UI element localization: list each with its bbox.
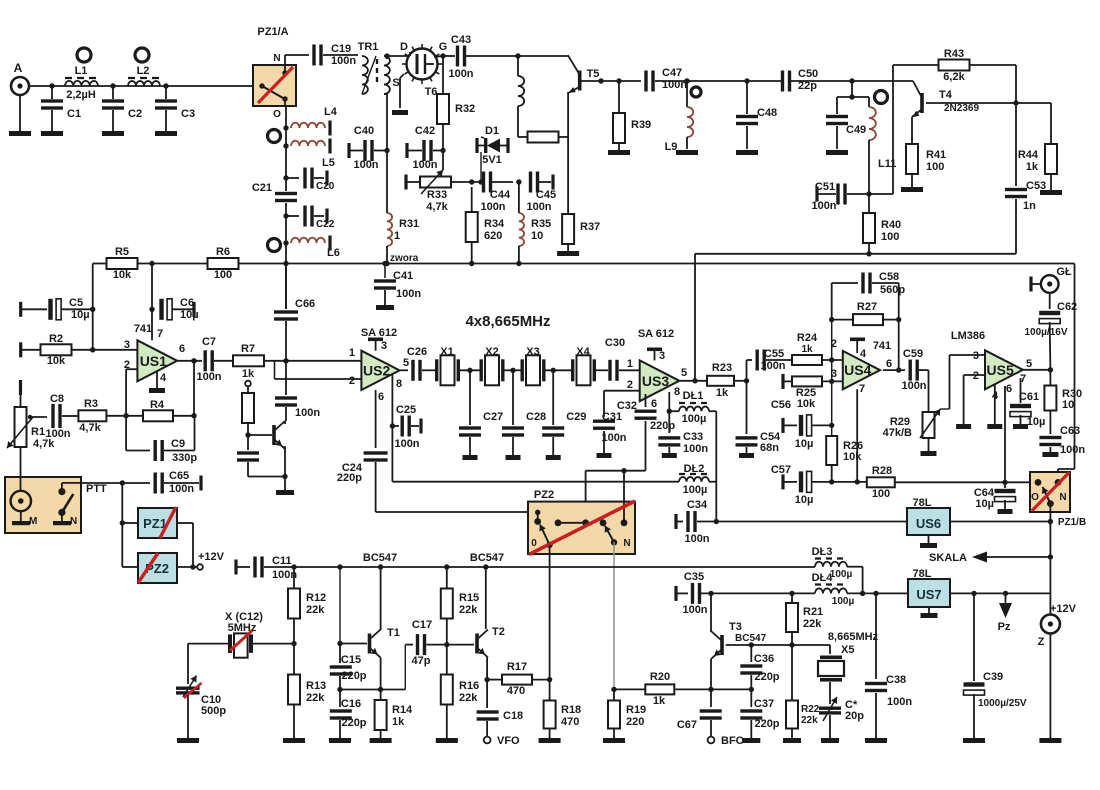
wire <box>125 369 127 416</box>
relay coil PZ1 <box>138 508 177 538</box>
wire <box>165 110 167 131</box>
svg-text:C7: C7 <box>202 336 216 348</box>
svg-text:100n: 100n <box>353 159 378 171</box>
antenna connector A <box>11 77 29 95</box>
wire <box>619 369 640 371</box>
svg-text:100n: 100n <box>412 159 437 171</box>
wire <box>380 690 382 702</box>
wire <box>339 690 341 708</box>
wire antenna line <box>29 85 253 87</box>
svg-text:3: 3 <box>659 350 665 362</box>
svg-text:R4: R4 <box>150 399 165 411</box>
junction <box>440 53 445 58</box>
svg-text:N: N <box>70 516 77 527</box>
svg-text:100: 100 <box>881 231 899 243</box>
junction <box>1048 519 1053 524</box>
wire <box>883 369 905 371</box>
svg-text:100n: 100n <box>480 201 505 213</box>
svg-text:7: 7 <box>157 328 163 340</box>
wire <box>831 425 833 436</box>
svg-text:R12: R12 <box>306 592 326 604</box>
svg-text:C16: C16 <box>341 698 361 710</box>
svg-text:C55: C55 <box>764 348 784 360</box>
svg-text:100: 100 <box>872 488 890 500</box>
svg-text:R33: R33 <box>427 189 447 201</box>
wire <box>375 462 377 512</box>
svg-text:741: 741 <box>873 340 891 352</box>
svg-text:C40: C40 <box>354 125 374 137</box>
wire <box>339 676 341 690</box>
ground <box>1039 738 1061 743</box>
resistor R43 <box>939 60 970 71</box>
relay box PZ1/A <box>253 65 296 106</box>
wire <box>188 643 228 645</box>
svg-text:5: 5 <box>681 367 687 379</box>
resistor R13 <box>288 675 300 705</box>
svg-text:C1: C1 <box>67 108 81 120</box>
wire <box>285 321 287 361</box>
wire <box>81 482 150 484</box>
ground <box>9 131 31 136</box>
junction <box>744 378 749 383</box>
wire <box>286 215 299 217</box>
svg-text:L4: L4 <box>324 106 338 118</box>
capacitor C45 <box>529 172 539 193</box>
capacitor 100n <box>275 396 297 406</box>
svg-text:220p: 220p <box>754 718 779 730</box>
svg-text:8: 8 <box>674 386 680 398</box>
svg-text:SKALA: SKALA <box>929 552 967 564</box>
wire <box>286 177 299 179</box>
capacitor C59 <box>909 360 919 381</box>
resistor R40 <box>863 213 875 243</box>
wire <box>194 416 196 451</box>
choke DL3 core <box>815 557 847 559</box>
svg-text:R31: R31 <box>399 218 419 230</box>
wire <box>832 282 858 284</box>
wire <box>940 408 949 410</box>
svg-text:R5: R5 <box>115 246 129 258</box>
svg-text:DŁ3: DŁ3 <box>812 546 833 558</box>
junction <box>692 378 697 383</box>
junction <box>149 261 154 266</box>
red slash C10 <box>184 683 202 698</box>
wire <box>895 481 1030 483</box>
wire <box>518 246 520 264</box>
svg-text:C33: C33 <box>683 431 703 443</box>
wire <box>668 447 670 453</box>
svg-text:20p: 20p <box>845 710 864 722</box>
wire <box>734 380 747 382</box>
ground <box>826 150 848 155</box>
ground <box>41 131 63 136</box>
ground <box>676 150 698 155</box>
wire <box>433 150 443 152</box>
svg-text:L1: L1 <box>75 65 88 77</box>
svg-text:100n: 100n <box>526 201 551 213</box>
svg-text:R27: R27 <box>857 301 877 313</box>
wire <box>284 55 286 73</box>
junction <box>291 564 296 569</box>
wire <box>237 566 250 568</box>
terminal bar <box>19 342 22 357</box>
choke DL3 <box>815 562 847 567</box>
svg-text:T3: T3 <box>729 621 742 633</box>
open terminal <box>197 564 203 570</box>
inductor TR1s <box>384 56 390 94</box>
op-amp US4 <box>843 351 880 389</box>
relay box PZ1/B <box>1030 472 1070 512</box>
svg-text:R35: R35 <box>531 218 551 230</box>
svg-text:78L: 78L <box>913 568 932 580</box>
wire <box>51 110 53 131</box>
wire <box>177 566 197 568</box>
svg-text:L9: L9 <box>665 141 678 153</box>
junction <box>337 641 342 646</box>
wire <box>512 437 514 455</box>
junction <box>283 358 288 363</box>
switch box PZ2 <box>528 502 635 554</box>
svg-text:C6: C6 <box>180 297 194 309</box>
wire <box>869 193 893 195</box>
red slash PZ1/B <box>1032 472 1069 510</box>
PZ1/A contact O <box>282 96 287 101</box>
junction <box>382 261 387 266</box>
PTT box <box>5 477 81 533</box>
svg-text:US7: US7 <box>916 587 941 602</box>
svg-text:100µ: 100µ <box>683 484 708 496</box>
svg-text:PZ1/B: PZ1/B <box>1058 517 1086 528</box>
wire US1 pin4 <box>156 372 158 388</box>
resistor R23 <box>707 376 734 386</box>
svg-text:US3: US3 <box>642 373 669 389</box>
capacitor C17 <box>416 634 426 655</box>
junction <box>551 368 556 373</box>
potentiometer R33 <box>420 177 451 188</box>
svg-text:470: 470 <box>561 716 579 728</box>
wire DL2 feed line <box>392 481 679 483</box>
wire <box>20 447 22 477</box>
wire <box>832 319 853 321</box>
junction <box>547 677 552 682</box>
Pz arrow <box>999 593 1012 618</box>
svg-text:4,7k: 4,7k <box>426 201 448 213</box>
wire <box>791 645 793 701</box>
wire <box>381 689 406 691</box>
svg-text:C15: C15 <box>341 654 361 666</box>
relay coil PZ2 <box>138 553 177 583</box>
wire <box>586 470 646 472</box>
wire <box>812 424 832 426</box>
svg-text:0: 0 <box>531 538 537 549</box>
junction <box>510 368 515 373</box>
wire <box>500 145 507 147</box>
capacitor C66 <box>274 310 298 320</box>
junction <box>378 687 383 692</box>
svg-text:470: 470 <box>507 685 525 697</box>
red slash PZ2 <box>138 553 158 583</box>
svg-text:47k/B: 47k/B <box>883 427 912 439</box>
resistor R27 <box>853 314 883 325</box>
wire <box>567 244 569 251</box>
wire <box>969 64 1016 66</box>
ground <box>557 251 579 256</box>
wire <box>375 341 377 351</box>
resistor R26 <box>826 436 837 465</box>
wire <box>950 521 1050 523</box>
wire <box>61 308 93 310</box>
wire <box>1058 468 1075 470</box>
junction <box>190 564 195 569</box>
svg-text:6: 6 <box>378 391 384 403</box>
svg-text:R32: R32 <box>455 103 475 115</box>
capacitor C22 <box>303 206 313 227</box>
wire <box>539 181 551 183</box>
open terminal <box>708 737 715 744</box>
svg-text:100µ: 100µ <box>832 596 855 607</box>
wire <box>613 689 615 701</box>
svg-text:L2: L2 <box>137 65 150 77</box>
capacitor C25 <box>401 416 411 437</box>
wire <box>284 477 286 491</box>
capacitor C49 <box>826 115 848 125</box>
inductor L6 <box>291 238 325 243</box>
resistor R20 <box>645 684 674 694</box>
svg-text:R2: R2 <box>49 333 63 345</box>
wire <box>380 730 382 739</box>
svg-text:3: 3 <box>381 340 387 352</box>
wire <box>486 658 488 680</box>
svg-text:3: 3 <box>124 339 130 351</box>
capacitor C24 <box>364 451 388 461</box>
svg-text:22k: 22k <box>801 715 818 726</box>
junction <box>860 591 865 596</box>
capacitor C30 <box>608 360 618 381</box>
junction <box>616 78 621 83</box>
terminal bar <box>475 138 478 153</box>
svg-text:O: O <box>1031 492 1039 503</box>
ground <box>921 613 938 618</box>
svg-text:Pz: Pz <box>998 621 1011 633</box>
svg-text:4: 4 <box>860 348 867 360</box>
open terminal <box>245 381 251 387</box>
inductor R35 <box>519 213 524 246</box>
wire <box>151 264 153 341</box>
junction <box>90 347 95 352</box>
svg-text:C2: C2 <box>128 108 142 120</box>
svg-text:R20: R20 <box>650 671 670 683</box>
svg-text:R43: R43 <box>944 48 964 60</box>
wire US5 pin3 <box>950 354 986 356</box>
wire <box>340 643 367 645</box>
US4 pin4 bar <box>850 338 865 342</box>
svg-text:C26: C26 <box>407 346 427 358</box>
wire <box>674 688 751 690</box>
ground <box>149 388 165 393</box>
red slash PZ2 box <box>529 501 635 555</box>
wire <box>829 682 831 704</box>
red slash PZ1 <box>160 507 176 538</box>
crystal X2 <box>480 355 505 385</box>
ground <box>1040 190 1062 195</box>
wire <box>1020 415 1022 424</box>
potentiometer R29 <box>923 412 935 438</box>
wire <box>469 370 471 425</box>
svg-text:6: 6 <box>886 358 892 370</box>
svg-text:78L: 78L <box>913 497 932 509</box>
op-amp US2 <box>361 351 399 390</box>
svg-text:R17: R17 <box>507 661 527 673</box>
red slash PZ1/A <box>258 67 293 103</box>
capacitor C27 <box>459 426 481 436</box>
resistor (emitter bias) <box>528 132 559 143</box>
svg-text:R23: R23 <box>712 362 732 374</box>
electrolytic capacitor C57 <box>799 471 812 492</box>
resistor R34 <box>466 212 478 242</box>
wire <box>399 78 401 108</box>
svg-text:10µ: 10µ <box>975 498 994 510</box>
svg-text:C11: C11 <box>272 555 292 567</box>
wire <box>72 349 138 351</box>
junction <box>484 677 489 682</box>
capacitor C37 <box>740 709 762 719</box>
ground <box>376 305 394 310</box>
wire <box>818 193 836 195</box>
svg-text:1: 1 <box>627 358 633 370</box>
svg-text:3: 3 <box>973 350 979 362</box>
wire <box>784 380 792 382</box>
svg-text:X5: X5 <box>841 644 854 656</box>
wire <box>165 86 167 99</box>
svg-text:100n: 100n <box>448 68 473 80</box>
capacitor C26 <box>411 360 421 381</box>
svg-text:100n: 100n <box>396 288 421 300</box>
wire <box>518 182 520 213</box>
inductor L4 <box>291 123 325 128</box>
wire main bus <box>93 263 107 265</box>
wire <box>264 360 361 362</box>
PZ1/A lever <box>262 86 283 98</box>
wire <box>293 618 295 644</box>
wire <box>623 471 625 513</box>
svg-text:1k: 1k <box>716 387 729 399</box>
capacitor C32 <box>635 410 657 420</box>
red slash X(C12) <box>230 630 252 650</box>
wire <box>20 388 22 407</box>
wire <box>386 56 388 59</box>
wire <box>323 54 358 56</box>
inductor L2 <box>128 81 160 86</box>
headphone jack GL <box>1041 275 1059 293</box>
wire <box>973 694 975 738</box>
wire <box>406 55 410 57</box>
test ring <box>875 91 888 104</box>
junction <box>621 468 626 473</box>
svg-text:100µ: 100µ <box>682 413 707 425</box>
ground <box>1013 424 1028 429</box>
terminal bar <box>19 380 22 395</box>
svg-text:N: N <box>273 53 280 64</box>
svg-text:R15: R15 <box>459 592 479 604</box>
crystal X(C12) <box>228 633 253 657</box>
ground <box>921 451 937 456</box>
svg-text:10: 10 <box>531 230 543 242</box>
crystal X1 <box>435 355 460 385</box>
svg-text:47p: 47p <box>412 655 431 667</box>
wire <box>985 556 1050 558</box>
junction <box>283 213 288 218</box>
PZ2 contact <box>611 539 617 545</box>
svg-text:BC547: BC547 <box>363 552 397 564</box>
ground <box>865 738 887 743</box>
svg-text:C50: C50 <box>798 68 818 80</box>
wire <box>422 369 435 371</box>
terminal bar <box>1029 277 1032 292</box>
op-amp US5 <box>985 350 1023 389</box>
capacitor C7 <box>204 350 214 371</box>
junction <box>684 78 689 83</box>
junction <box>789 591 794 596</box>
PZ2 contact <box>582 519 589 526</box>
terminal bar <box>404 175 407 190</box>
junction <box>749 687 754 692</box>
junction <box>467 368 472 373</box>
wire <box>253 643 294 645</box>
wire <box>862 567 864 594</box>
US2 pin3 bar <box>368 338 383 342</box>
svg-text:C18: C18 <box>503 710 523 722</box>
ground <box>821 738 839 743</box>
junction <box>49 83 54 88</box>
ground <box>392 110 408 115</box>
regulator US7 <box>908 579 950 607</box>
wire <box>451 181 479 183</box>
svg-text:1k: 1k <box>653 695 666 707</box>
svg-text:G: G <box>439 41 448 53</box>
wire <box>875 593 877 679</box>
R33 wiper arrow <box>421 170 443 194</box>
wire <box>248 476 285 478</box>
junction <box>849 94 854 99</box>
junction <box>283 175 288 180</box>
wire <box>391 375 393 482</box>
wire <box>791 632 793 645</box>
wire <box>405 644 413 646</box>
svg-text:T6: T6 <box>425 86 438 98</box>
svg-text:X3: X3 <box>526 346 539 358</box>
wire <box>285 264 287 310</box>
wire 12V TX rail <box>264 566 815 568</box>
PZ2 contact <box>600 519 607 526</box>
svg-text:100µ: 100µ <box>830 569 853 580</box>
svg-text:8,665MHz: 8,665MHz <box>828 631 879 643</box>
svg-text:C58: C58 <box>879 271 899 283</box>
wire <box>518 136 528 138</box>
wire <box>446 567 448 589</box>
transistor T4 <box>912 81 924 117</box>
inductor L1 <box>65 81 98 86</box>
svg-text:100: 100 <box>926 161 944 173</box>
wire <box>645 394 647 407</box>
wire <box>380 658 382 690</box>
svg-text:22k: 22k <box>459 604 478 616</box>
wire <box>125 416 127 451</box>
junction <box>708 591 713 596</box>
wire <box>784 481 797 483</box>
resistor R14 <box>375 700 387 730</box>
svg-text:500p: 500p <box>201 705 226 717</box>
svg-text:N: N <box>1059 492 1066 503</box>
